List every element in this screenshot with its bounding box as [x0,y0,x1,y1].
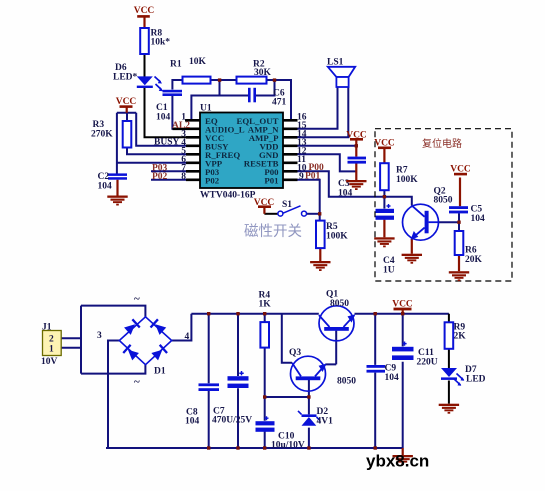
svg-text:C1: C1 [156,103,168,113]
bridge diode top-right [150,319,167,336]
svg-text:8050: 8050 [434,196,453,206]
ground under C4 [374,237,394,247]
svg-text:~: ~ [134,376,140,388]
wire right VCC rail [355,313,449,315]
svg-text:10V: 10V [41,357,58,367]
wire R4 column [264,314,266,397]
resistor R9 [445,322,454,349]
wire C4 to ground [383,220,385,238]
wire pin15 to speaker left leg [283,87,338,129]
svg-text:ybx8.cn: ybx8.cn [366,452,429,471]
svg-text:471: 471 [272,98,287,108]
ground under C3 [346,180,366,190]
transistor Q3 [291,356,327,391]
svg-text:8: 8 [181,172,186,182]
VCC symbol top (R8) [134,6,155,18]
wire R1 to R2 [211,79,237,81]
IC pin numbers left [181,112,186,182]
red power wire group [118,17,461,314]
wire R2 right to pin16 column [267,80,291,120]
wire pin9 P01 down to switch node and R5 [283,180,320,221]
svg-text:R6: R6 [465,246,477,256]
wire VCC to left node [126,107,128,113]
IC U1 pin names right [236,116,279,186]
capacitor C9 [367,365,386,373]
connector J1 [43,331,62,356]
resistor R6 [455,231,464,255]
wire C11 column [402,314,404,448]
wire C10 column [264,397,266,448]
wire C2 to ground [116,180,118,196]
svg-text:R3: R3 [93,120,105,130]
svg-text:D6: D6 [115,63,127,73]
svg-text:WTV040-16P: WTV040-16P [200,191,256,201]
wire C9 column [374,314,376,448]
capacitor C2 [108,173,127,179]
speaker LS1 [328,67,355,87]
svg-text:~: ~ [134,293,140,305]
svg-text:1: 1 [49,345,54,355]
reset circuit dashed box [375,129,512,281]
svg-text:1U: 1U [383,266,395,276]
wire VCC to R7 [383,149,385,163]
LED D7 [441,368,464,386]
capacitor C11 [392,342,414,361]
svg-text:C4: C4 [383,256,395,266]
wire pin14 to speaker right leg [283,87,348,137]
ground under C2 [107,196,127,206]
wire R7 bottom to node [383,190,385,208]
capacitor C6 [248,88,256,103]
LED D6 [137,76,163,91]
svg-text:4V1: 4V1 [317,417,334,427]
wire base node horizontal [265,396,309,398]
capacitor C7 [228,371,249,388]
svg-text:10u/10V: 10u/10V [271,441,305,451]
svg-text:R5: R5 [326,222,338,232]
wire C8 column [208,314,210,448]
resistor R7 [380,163,389,190]
svg-text:30K: 30K [254,68,272,78]
IC pin numbers right [297,112,307,182]
wire bottom ground rail [106,447,403,449]
wire VCC node horizontal left block [117,112,136,114]
svg-text:8050: 8050 [337,377,356,387]
svg-text:270K: 270K [91,130,113,140]
svg-text:LED*: LED* [113,73,138,83]
svg-text:R1: R1 [170,60,182,70]
wire left vertical to C2 and pin6 [117,113,200,174]
wire Q3 collector branch [282,314,292,363]
wire Q3 emitter to Q1 base [325,331,336,365]
transistor Q1 [319,306,356,341]
svg-text:20K: 20K [465,255,483,265]
svg-text:AL2: AL2 [172,121,190,131]
wire VCC node to pin4 BUSY [136,113,200,146]
bridge rectifier D1 diamond [119,317,171,365]
VCC symbol (S1) [254,198,275,208]
svg-text:复位电路: 复位电路 [422,137,462,150]
svg-text:磁性开关: 磁性开关 [244,223,302,240]
svg-text:P02: P02 [205,176,220,186]
capacitor C4 [376,204,395,220]
VCC symbol (R7) [374,139,395,150]
svg-text:BUSY: BUSY [154,138,179,148]
capacitor C5 [449,206,468,213]
svg-text:2K: 2K [454,332,467,342]
zener diode D2 [298,411,320,426]
svg-text:C9: C9 [385,364,397,374]
wire VCC to C3 [355,140,357,157]
wire Q2 emitter to ground [411,239,413,254]
wire R1 left to C1 [172,80,182,90]
bridge diode bottom-right [151,344,168,361]
bridge diode bottom-left [122,344,139,361]
svg-text:D2: D2 [317,407,329,417]
wire node row to C6 left [191,96,248,121]
IC U1 body [200,113,283,189]
svg-text:104: 104 [98,182,113,192]
svg-text:100K: 100K [396,175,418,185]
svg-text:J1: J1 [42,323,52,333]
wire Q3 base to D2 [308,380,310,448]
wire VCC to C5 [459,178,461,207]
svg-text:10K: 10K [189,57,207,67]
wire VCC to bottom rail [402,310,404,314]
resistor R8 [140,28,149,54]
svg-text:8050: 8050 [330,299,349,309]
wire backdrop group [61,54,459,448]
resistor R2 [237,77,267,84]
wire VCC to switch S1 [263,207,265,214]
wire switch to node [306,213,319,215]
wire R6 to ground [458,255,460,271]
svg-text:104: 104 [471,214,486,224]
svg-text:104: 104 [385,373,400,383]
VCC symbol bottom [392,300,413,311]
VCC symbol left (R3) [116,97,137,108]
wire pin12 GND to C3 bottom [283,154,356,171]
ground under R6 [449,271,469,281]
svg-text:220U: 220U [417,358,438,368]
capacitor C1 [163,90,183,96]
wire bridge left vertex down to bottom rail [108,341,119,449]
svg-text:C5: C5 [471,205,483,215]
wire pin8 P02 stub [151,179,200,181]
svg-text:LED: LED [466,375,486,385]
ground under R5 [310,261,330,271]
wire bridge outer loop [81,306,145,374]
ground bottom rail [393,448,413,465]
svg-text:Q3: Q3 [289,348,301,358]
svg-text:LS1: LS1 [327,58,344,68]
svg-text:9: 9 [299,172,304,182]
svg-text:U1: U1 [200,104,212,114]
wire R8 to LED D6 [144,54,146,76]
resistor R4 [260,322,269,348]
bridge diode top-left [124,319,141,336]
svg-text:P01: P01 [264,176,278,186]
svg-text:104: 104 [156,113,171,123]
wire R5 to ground [319,248,321,261]
wire LED to IC pin3 [145,87,201,137]
wire to R3 top [126,113,128,121]
ground under D7 [439,404,459,414]
svg-text:D7: D7 [465,365,477,375]
wire VCC to switch [264,213,278,215]
resistor R3 [123,121,132,148]
svg-text:3: 3 [97,331,102,341]
IC U1 pin stubs right [283,120,298,180]
switch S1 [278,206,307,216]
wire D7 to ground [448,381,450,404]
wire left supply rail [191,313,318,315]
IC U1 pin stubs left [173,120,201,180]
IC U1 pin names left [205,116,245,186]
svg-text:C2: C2 [98,172,110,182]
wire C6 right to R2 right junction [256,80,275,96]
svg-text:Q1: Q1 [326,290,338,300]
wire R9 column [448,314,450,368]
wire bridge right vertex to left rail [172,314,192,341]
transistor Q2 [403,204,439,240]
wire pin13 VDD to VCC C3 node [283,145,356,147]
wire C1 bottom to IC pin2 [172,96,200,129]
wire pin10 P00 into reset box [283,171,412,205]
VCC symbol (C5) [450,165,471,176]
wire R3 bottom to pin5 [127,148,200,155]
svg-text:C11: C11 [418,348,434,358]
svg-text:1K: 1K [259,300,272,310]
capacitor C3 [348,157,367,164]
svg-text:10k*: 10k* [151,38,171,48]
wire junction down to node row [219,80,221,96]
wire J1 pins [61,338,81,347]
capacitor C8 [199,383,220,391]
resistor R5 [316,221,325,249]
svg-text:100K: 100K [326,232,348,242]
svg-text:P01: P01 [305,172,321,182]
wire C3 to ground [355,163,357,180]
resistor R1 [183,77,211,84]
svg-text:2: 2 [49,335,54,345]
ground under Q2 [402,254,422,264]
svg-text:P02: P02 [152,172,168,182]
capacitor C10 [256,416,275,432]
wire pin7 P03 stub [151,170,200,172]
svg-text:104: 104 [185,417,200,427]
svg-text:R7: R7 [396,166,408,176]
svg-text:470U/25V: 470U/25V [212,416,252,426]
svg-text:104: 104 [338,189,353,199]
svg-text:VCC: VCC [134,6,155,16]
svg-text:S1: S1 [282,200,292,210]
VCC symbol (C3) [346,131,367,141]
wire C7 column [237,314,239,448]
wire VCC to R8 [143,17,145,28]
svg-text:4: 4 [185,332,190,342]
wire Q2 base to C5/R6 node [439,213,459,231]
svg-text:D1: D1 [154,367,166,377]
